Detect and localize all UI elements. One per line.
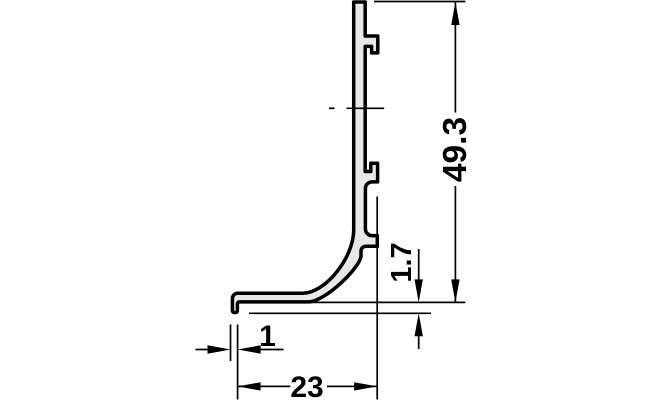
extension line lip-bottom extended right (1.7 lower reference) bbox=[249, 312, 431, 314]
svg-text:49.3: 49.3 bbox=[437, 117, 474, 182]
svg-text:23: 23 bbox=[290, 371, 323, 400]
extension line lip right face (1 dim / 23 left) bbox=[237, 325, 239, 400]
svg-text:1.7: 1.7 bbox=[386, 242, 418, 282]
centerline (dash + segment crossing wall) bbox=[329, 107, 335, 109]
extension line flange-top extended right (49.3 lower / 1.7 upper reference) bbox=[309, 301, 465, 303]
dim 1 line + arrows bbox=[196, 349, 213, 351]
aluminium profile cross-section bbox=[232, 2, 377, 313]
dim 23 line + arrows bbox=[238, 385, 291, 387]
dim 1.7 line + arrows bbox=[418, 249, 420, 294]
svg-text:1: 1 bbox=[259, 320, 276, 353]
dim 49.3 line + arrows bbox=[454, 2, 456, 113]
extension line right (23 right / profile outer face extended down) bbox=[376, 197, 378, 400]
extension line lip left face (1 dim) bbox=[230, 325, 232, 362]
extension line top (49.3 upper reference) bbox=[374, 1, 465, 3]
